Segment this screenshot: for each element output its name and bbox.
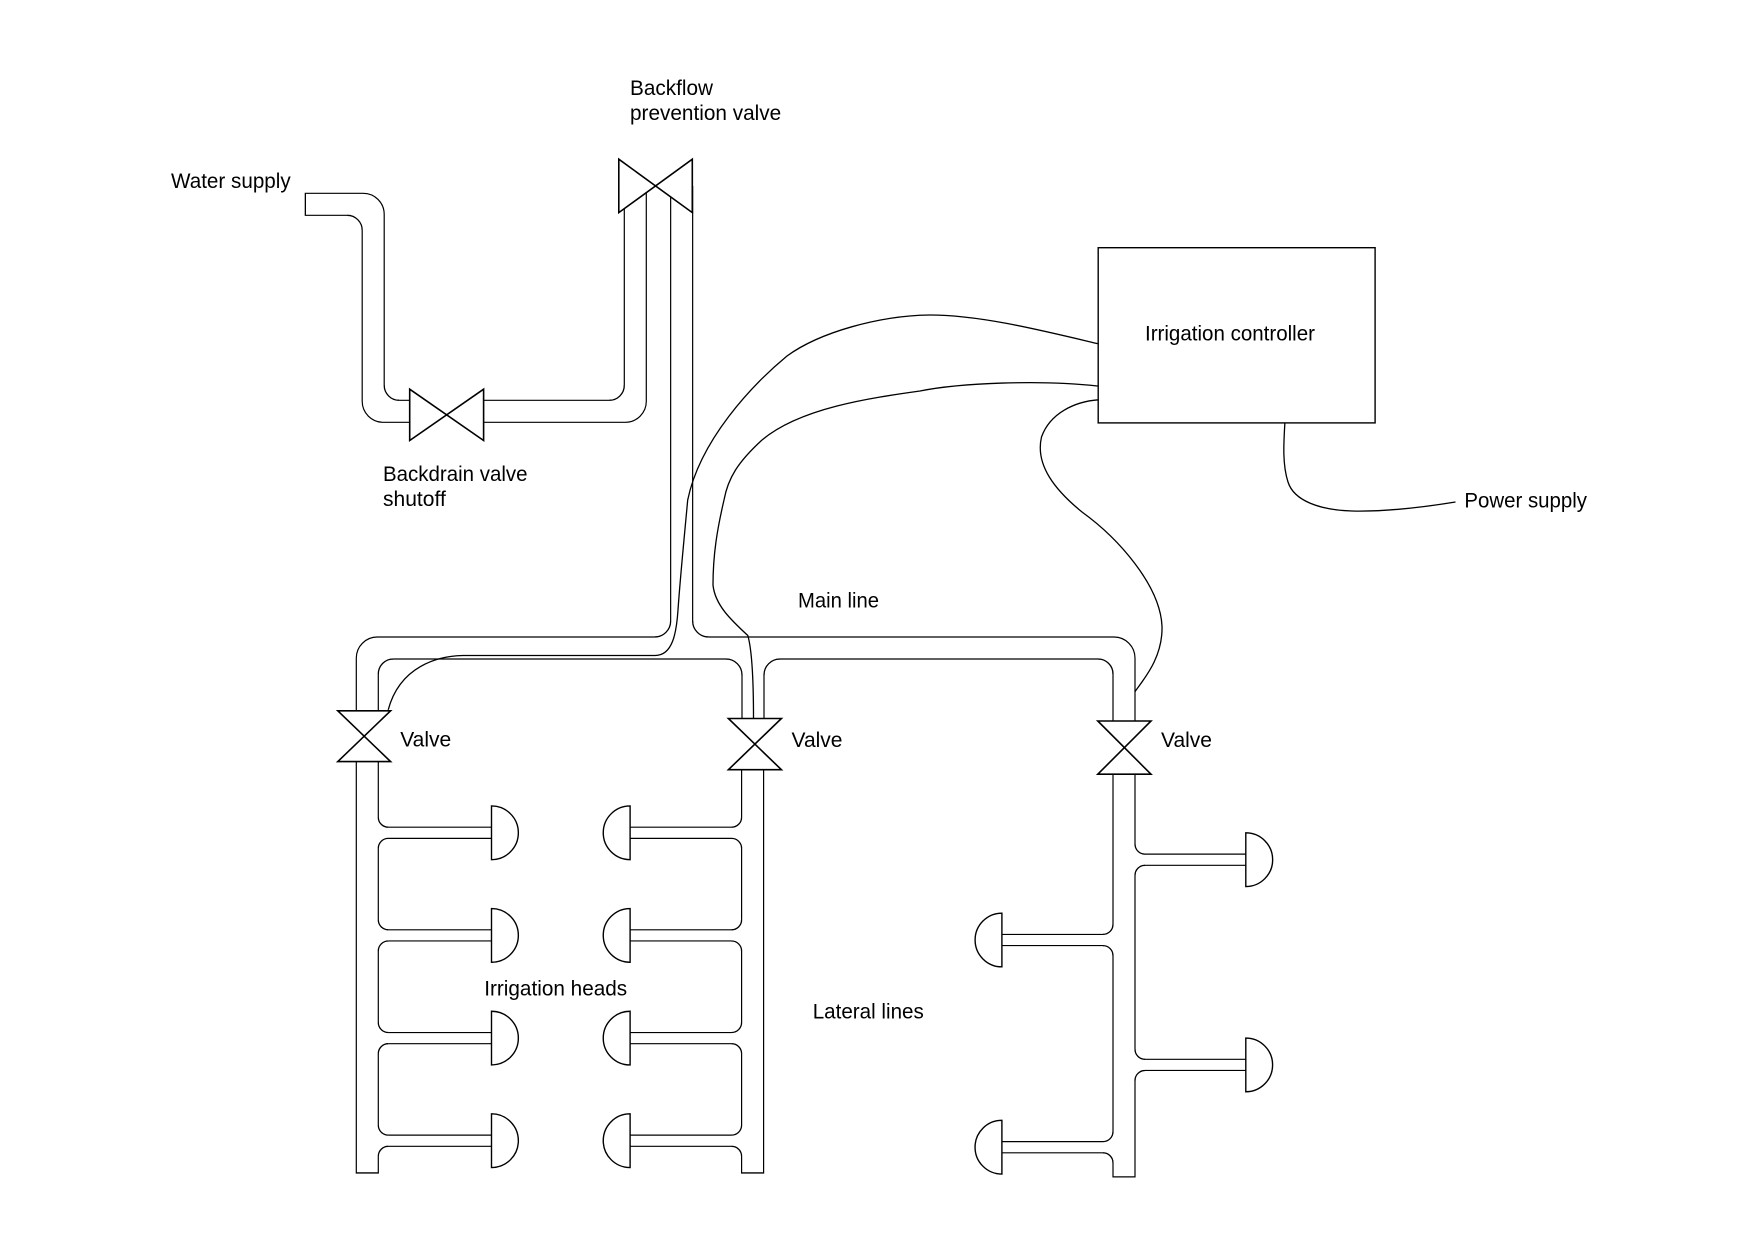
svg-text:Main line: Main line: [798, 589, 879, 612]
svg-text:shutoff: shutoff: [383, 488, 446, 511]
svg-text:Valve: Valve: [792, 729, 843, 752]
svg-text:Irrigation heads: Irrigation heads: [484, 978, 627, 1001]
svg-text:Valve: Valve: [1161, 729, 1212, 752]
svg-text:Lateral lines: Lateral lines: [813, 1000, 924, 1023]
svg-text:Valve: Valve: [400, 729, 451, 752]
svg-text:Power supply: Power supply: [1464, 490, 1587, 513]
svg-text:Irrigation controller: Irrigation controller: [1145, 323, 1315, 346]
svg-text:Backflow: Backflow: [630, 77, 714, 100]
svg-text:prevention valve: prevention valve: [630, 102, 781, 125]
svg-text:Water supply: Water supply: [171, 170, 291, 193]
svg-text:Backdrain valve: Backdrain valve: [383, 463, 528, 486]
